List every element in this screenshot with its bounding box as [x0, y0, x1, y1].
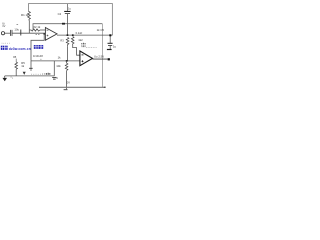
resistor R2 horizontal — [31, 29, 40, 31]
arrow marker on rail — [23, 72, 26, 75]
node dot D — [108, 58, 110, 60]
op-amp U1 — [45, 28, 57, 41]
wire branch to C6 — [53, 61, 55, 76]
svg-text:10k: 10k — [56, 64, 61, 68]
node dot feedback — [62, 23, 65, 25]
wire noninverting bus — [31, 60, 80, 62]
wire R2 to op-amp — [40, 29, 46, 31]
svg-text:1u: 1u — [113, 45, 117, 49]
wire R4 to U2 input — [73, 45, 80, 55]
tick marks above input wire — [36, 34, 40, 35]
capacitor C4 — [107, 35, 113, 49]
capacitor C6 marks — [52, 77, 56, 79]
node dot C — [66, 60, 68, 62]
svg-text:10u: 10u — [14, 27, 19, 31]
wire top supply rail — [29, 4, 113, 36]
svg-text:R3: R3 — [60, 38, 64, 42]
wire inverting input — [29, 29, 31, 31]
capacitor C2 — [64, 4, 70, 35]
capacitor C1 — [11, 30, 13, 36]
node dot B — [72, 34, 74, 36]
ground rail left — [5, 75, 55, 77]
label above U2 — [81, 43, 85, 47]
tick mark right of cap label — [17, 24, 19, 25]
wire bias path — [31, 34, 44, 61]
watermark logo — [1, 46, 8, 50]
bottom rail — [39, 86, 106, 88]
svg-text:1k C5: 1k C5 — [97, 28, 105, 32]
wire feedback — [33, 24, 102, 30]
svg-text:C2: C2 — [58, 12, 62, 16]
label dashes above U2 — [86, 46, 97, 48]
ground G1 — [3, 76, 8, 81]
svg-text:R2 1k: R2 1k — [33, 25, 41, 29]
faint speck row above watermark — [2, 42, 10, 45]
wire feedback drop — [101, 24, 103, 88]
wire R3 to node — [67, 46, 69, 61]
resistor R6 — [65, 61, 68, 89]
pin minus U1 — [47, 29, 49, 32]
junction dot F — [43, 33, 45, 34]
watermark text2 — [34, 45, 43, 49]
wire C1 to node — [13, 32, 46, 34]
pin minus U2 — [82, 54, 84, 57]
svg-text:1k2: 1k2 — [78, 38, 83, 42]
input terminal — [1, 32, 4, 35]
resistor R1 — [28, 12, 31, 21]
junction plate — [20, 30, 22, 36]
wire U2 output — [93, 58, 109, 60]
rail end mark — [104, 87, 106, 88]
svg-text:dz3w.com.cn: dz3w.com.cn — [9, 47, 31, 51]
svg-text:0.1uF: 0.1uF — [76, 31, 83, 35]
tick on bus — [40, 58, 42, 60]
pin plus U2 — [82, 60, 84, 62]
svg-text:0V: 0V — [67, 81, 71, 85]
svg-text:Uo 2.5V: Uo 2.5V — [94, 54, 104, 58]
pin plus U1 — [47, 35, 49, 37]
resistor R3 — [66, 37, 69, 46]
ground bar under rail — [64, 89, 68, 91]
speckle text row above left rail — [31, 73, 45, 74]
svg-text:R1 1k: R1 1k — [21, 13, 29, 17]
op-amp U2 — [80, 51, 93, 66]
svg-text:1V: 1V — [2, 24, 5, 28]
svg-text:C: C — [56, 76, 58, 80]
node dot A — [67, 34, 69, 36]
capacitor C3 to ground — [29, 61, 32, 70]
wire R1 to input node — [28, 20, 30, 33]
node dot E — [109, 34, 111, 36]
resistor R5 — [13, 56, 17, 76]
wire U1 output — [57, 34, 112, 36]
specks near ground rail — [11, 77, 13, 79]
wire input — [5, 32, 10, 34]
resistor R4 — [71, 37, 74, 45]
